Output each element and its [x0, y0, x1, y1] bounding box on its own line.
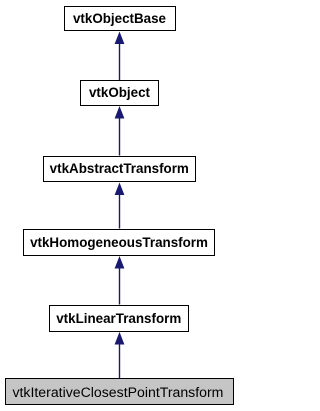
wire inheritance arrow vtkHomogeneousTransform -> vtkAbstractTransform	[115, 183, 125, 229]
node vtkHomogeneousTransform	[23, 229, 215, 256]
node vtkObjectBase	[64, 6, 176, 31]
wire inheritance arrow vtkLinearTransform -> vtkHomogeneousTransform	[115, 256, 125, 305]
node vtkObject	[80, 80, 159, 106]
node vtkLinearTransform	[49, 305, 190, 332]
wire inheritance arrow vtkAbstractTransform -> vtkObject	[115, 106, 125, 156]
wire inheritance arrow vtkIterativeClosestPointTransform -> vtkLinearTransform	[115, 332, 125, 378]
node vtkAbstractTransform	[43, 156, 197, 183]
node vtkIterativeClosestPointTransform (current class, grey)	[5, 378, 234, 405]
wire inheritance arrow vtkObject -> vtkObjectBase	[115, 32, 125, 81]
